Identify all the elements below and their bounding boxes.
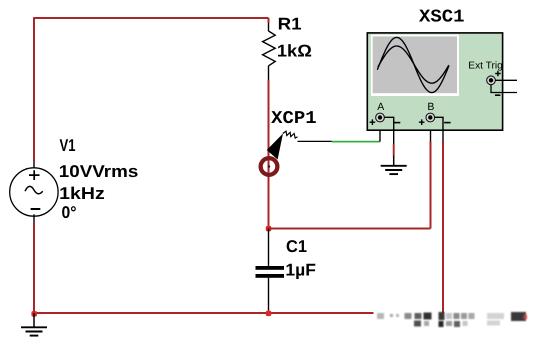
terminal Ext Trig (487, 76, 496, 85)
terminal B (426, 113, 435, 122)
wire middle vertical (R1 to C1) (268, 80, 270, 229)
svg-text:XSC1: XSC1 (419, 7, 465, 27)
svg-text:Ext Trig: Ext Trig (468, 61, 503, 72)
svg-text:1kΩ: 1kΩ (277, 42, 312, 61)
wire A minus red segment (393, 144, 395, 156)
svg-text:C1: C1 (286, 237, 307, 256)
wire middle horizontal (C1 to B+) (269, 228, 431, 230)
svg-text:A: A (377, 101, 384, 113)
wire scope A+ lead (379, 121, 381, 142)
wire R1 top lead red (268, 18, 270, 23)
ground GND1 (21, 313, 47, 336)
wire B+ vertical red (430, 142, 432, 229)
wire A minus stub (384, 117, 394, 144)
capacitor C1 (256, 229, 285, 311)
svg-text:1µF: 1µF (285, 261, 316, 280)
svg-text:0°: 0° (62, 203, 77, 222)
terminal A (376, 113, 385, 122)
svg-text:10VVrms: 10VVrms (59, 162, 139, 181)
junction bottom-left (31, 311, 37, 317)
source V1 (10, 168, 58, 216)
wire Ext Trig plus stub (496, 79, 518, 81)
wire scope B+ lead (430, 122, 432, 142)
wire V1 top lead (33, 161, 35, 168)
svg-text:B: B (427, 101, 434, 113)
wire B minus stub (435, 117, 444, 141)
wire top horizontal (34, 17, 269, 19)
svg-text:R1: R1 (278, 15, 302, 34)
watermark (374, 306, 528, 332)
label B minus (444, 122, 450, 124)
wire A minus to ground (393, 156, 395, 166)
junction C1 bottom (266, 311, 272, 317)
label A minus (394, 122, 400, 124)
oscilloscope XSC1 body (367, 33, 502, 130)
watermark overlay blocks (439, 312, 445, 327)
wire V1 bottom lead (33, 214, 35, 223)
wire left vertical (33, 17, 35, 161)
current probe XCP1 (261, 131, 298, 175)
label A plus (370, 119, 376, 125)
wire probe output green (332, 141, 381, 143)
svg-text:XCP1: XCP1 (271, 109, 317, 129)
label Ext plus (495, 71, 500, 76)
label Ext minus (495, 94, 500, 96)
resistor R1 (263, 23, 276, 80)
wire bottom horizontal (34, 312, 443, 314)
ground GND2 (381, 166, 407, 174)
svg-text:V1: V1 (60, 136, 76, 155)
wire B minus vertical red (442, 142, 444, 314)
scope trace A (377, 37, 449, 92)
label B plus (419, 119, 425, 125)
wire left lower vertical (33, 223, 35, 313)
wire Ext Trig minus stub (491, 85, 517, 93)
scope trace B (378, 46, 449, 83)
junction C1 top (266, 226, 272, 232)
wire probe output black (298, 140, 332, 142)
svg-text:1kHz: 1kHz (59, 184, 104, 203)
